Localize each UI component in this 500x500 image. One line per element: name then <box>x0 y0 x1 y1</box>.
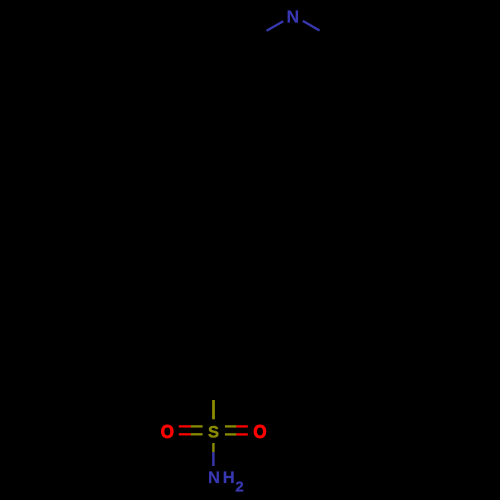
svg-text:N: N <box>208 469 220 487</box>
svg-text:2: 2 <box>235 478 243 495</box>
wire S=O right double bond, red halves <box>236 425 247 427</box>
svg-text:S: S <box>208 423 219 441</box>
wire N1-C2 blue half-bond (down-right) <box>303 21 320 31</box>
wire N1-C6 blue half-bond (down-left) <box>267 21 284 31</box>
svg-text:O: O <box>253 422 266 442</box>
wire S=O left double bond, red halves <box>179 425 191 427</box>
wire C-S olive half-bond (vertical above S) <box>212 400 215 419</box>
wire S-N bond olive half (vertical below S) <box>212 443 214 452</box>
wire S=O left double bond, olive halves <box>191 425 203 427</box>
wire S-N bond blue half <box>212 452 214 466</box>
svg-text:H: H <box>223 469 235 487</box>
svg-text:O: O <box>161 422 174 442</box>
svg-text:N: N <box>286 6 299 26</box>
wire S=O right double bond, olive halves <box>225 425 237 427</box>
